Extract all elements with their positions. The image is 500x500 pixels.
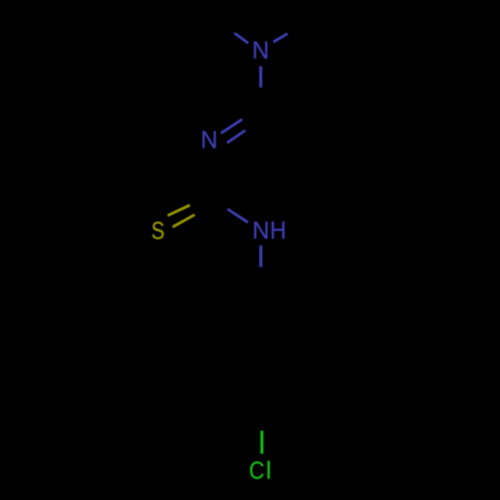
- bond C2=N3 main line (visible blue half): [221, 119, 242, 133]
- atom N5 nitrogen of NH: [254, 222, 267, 239]
- bond C4-N5 (visible blue half toward NH): [228, 209, 249, 222]
- bond N1-C2 (visible blue half, vertical): [259, 66, 262, 87]
- atom N3 (imine nitrogen): [203, 131, 216, 148]
- atom Cl chlorine C glyph: [250, 462, 264, 479]
- atom N5 hydrogen of NH: [272, 222, 285, 239]
- atom S (thiocarbonyl sulfur): [152, 222, 163, 239]
- bond C2=N3 second line (visible blue half): [227, 130, 245, 142]
- bond C4=S upper line (visible yellow half): [168, 205, 190, 215]
- atom N1 (dimethylamino nitrogen, top): [254, 41, 267, 58]
- bond N5-C1' (visible blue half, vertical to phenyl ring): [259, 245, 262, 267]
- bond C4'-Cl (visible green half, vertical): [260, 431, 263, 454]
- bond N1-CH3 right (visible blue half): [273, 34, 287, 42]
- bond N1-CH3 left (visible blue half): [234, 33, 248, 43]
- bond C4=S lower line (visible yellow half): [173, 215, 195, 227]
- atom Cl chlorine l glyph: [268, 461, 270, 479]
